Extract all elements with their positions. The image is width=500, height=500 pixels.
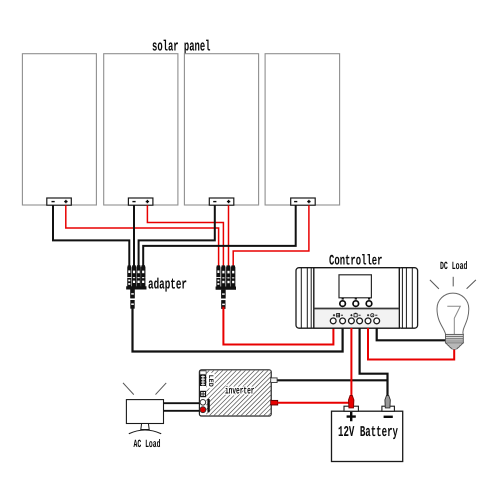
bulb screw base threads <box>446 334 464 349</box>
bulb ray NE <box>467 280 476 289</box>
svg-text:LED: LED <box>206 375 214 387</box>
AC load (TV) <box>123 383 166 451</box>
bulb filament <box>447 306 460 334</box>
battery minus post <box>382 406 395 411</box>
junction box J2 on PV2 <box>128 198 153 205</box>
AC load ray left <box>123 383 134 395</box>
svg-text:adapter: adapter <box>148 276 187 293</box>
junction box J3 on PV3 <box>209 198 234 205</box>
terminal 6 load minus <box>374 318 380 324</box>
wire adapter2 output (red) to controller solar plus <box>223 308 333 345</box>
solar panel PV2 <box>104 54 178 205</box>
battery 12V <box>332 396 403 462</box>
terminal 2 solar minus <box>340 318 346 324</box>
wire PV4 positive (red) to adapter2 <box>233 205 309 266</box>
controller button 3 <box>366 301 372 307</box>
wire controller battery plus (red) down to battery <box>350 328 352 398</box>
AC load ray right <box>156 383 167 395</box>
wire PV4 negative (black) to adapter1 <box>143 205 296 265</box>
wire PV2 positive (red) to adapter2 <box>147 205 223 266</box>
inverter socket block <box>200 391 206 397</box>
AC load TV body <box>126 400 163 424</box>
terminal 5 load plus <box>365 318 371 324</box>
controller U1 body <box>296 268 418 329</box>
inverter LED label <box>207 373 215 388</box>
controller terminal strip <box>315 309 399 327</box>
battery plus lug (red) <box>349 396 354 408</box>
terminal 4 battery minus <box>357 318 363 324</box>
adapter group 1 (negative combiner) <box>126 265 146 308</box>
bulb glass <box>437 293 469 334</box>
wire AC line from TV to inverter <box>164 402 200 404</box>
terminal pair label load <box>367 314 377 317</box>
solar panel PV4 <box>265 54 340 205</box>
bulb base cone tip <box>446 343 463 349</box>
battery case <box>332 411 403 461</box>
inverter LED display <box>200 371 206 374</box>
solar panel PV1 <box>22 54 96 205</box>
battery plus symbol <box>347 412 356 421</box>
controller button 2 <box>353 301 359 307</box>
wire PV1 negative (black) to adapter1 <box>53 205 129 265</box>
wire PV3 positive (red) to adapter2 <box>228 205 230 266</box>
wire controller battery minus (black) down to battery <box>360 328 388 398</box>
AC load TV neck <box>141 424 149 430</box>
svg-text:12V Battery: 12V Battery <box>338 424 398 441</box>
svg-text:AC Load: AC Load <box>134 439 161 451</box>
controller right wing <box>398 268 418 329</box>
adapter group 2 (positive combiner) <box>216 265 236 308</box>
inverter power button (red) <box>200 407 206 413</box>
controller left wing <box>296 268 316 329</box>
wire controller load plus (red) to bulb tip <box>368 328 454 360</box>
solar panel PV3 <box>184 54 258 205</box>
terminal pair label solar <box>333 314 343 317</box>
wire PV2 negative (black) to adapter1 <box>133 205 135 265</box>
terminal 3 battery plus <box>349 318 355 324</box>
inverter DC minus terminal <box>271 378 277 383</box>
inverter box <box>199 370 277 416</box>
inverter handle bar <box>207 399 209 413</box>
wire controller load minus (black) to bulb base <box>377 328 446 340</box>
bulb ray NW <box>430 280 439 289</box>
LCD pin stubs <box>342 298 344 300</box>
battery minus lug (grey) <box>385 396 390 408</box>
controller main body <box>314 268 400 329</box>
wire adapter1 output (black) to controller solar minus <box>133 308 343 352</box>
wire PV1 positive (red) to adapter2 <box>66 205 219 266</box>
wire inverter DC plus (red) to battery plus lug <box>278 402 349 404</box>
battery plus post <box>344 406 358 411</box>
svg-text:Controller: Controller <box>329 253 383 269</box>
junction box J4 on PV4 <box>291 198 316 205</box>
AC load TV base <box>129 430 161 434</box>
junction box J1 on PV1 <box>47 198 72 205</box>
battery minus symbol <box>384 416 393 418</box>
controller button 1 <box>340 301 346 307</box>
svg-text:solar panel: solar panel <box>152 38 211 55</box>
inverter AC outlet circle <box>200 400 206 406</box>
DC load bulb <box>430 277 476 349</box>
terminal 1 solar plus <box>330 318 336 324</box>
wire PV3 negative (black) to adapter1 <box>139 205 215 265</box>
bulb ray N <box>452 277 454 287</box>
terminal pair label battery <box>350 313 360 317</box>
svg-text:inverter: inverter <box>225 386 255 398</box>
svg-text:DC Load: DC Load <box>440 261 467 273</box>
controller LCD display <box>339 275 371 298</box>
wire AC neutral from TV to inverter <box>164 410 200 412</box>
inverter DC plus terminal <box>271 400 278 405</box>
wire inverter DC minus (black) to battery minus wire <box>277 379 388 381</box>
